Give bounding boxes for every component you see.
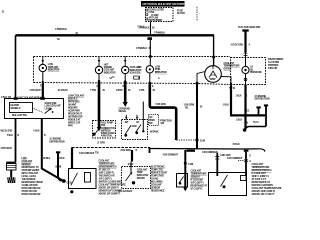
svg-text:TEMPERATURE: TEMPERATURE — [99, 163, 116, 166]
fuse symbols — [146, 9, 148, 11]
temp gauge U1 — [205, 66, 222, 83]
svg-text:COOLANT: COOLANT — [151, 184, 162, 187]
label 1 PNK/BLK 39 — [137, 26, 166, 35]
svg-text:COOLANT: COOLANT — [22, 160, 33, 163]
instrument cluster printed circuit label — [268, 58, 284, 70]
svg-text:LOW COOLANT: LOW COOLANT — [68, 94, 85, 97]
lamp C1 bottom wire — [42, 72, 44, 82]
connector bowtie — [244, 160, 248, 162]
lamp C1 LOW COOLANT — [39, 64, 46, 71]
wire fuse to bus — [150, 22, 152, 36]
svg-text:A/PB DT/AL: A/PB DT/AL — [101, 135, 113, 138]
svg-text:2 BLK: 2 BLK — [59, 158, 65, 160]
svg-text:MODULE AT: MODULE AT — [68, 118, 81, 121]
wire W/2.5L down left — [15, 119, 17, 163]
cluster left edge — [33, 57, 35, 83]
svg-text:A DK GRN: A DK GRN — [220, 154, 231, 157]
label 4 PNK/BLK — [55, 28, 67, 41]
svg-text:3.3 ENGINE: 3.3 ENGINE — [255, 96, 267, 98]
svg-text:LO: LO — [250, 67, 253, 69]
svg-text:PRR: PRR — [68, 125, 73, 127]
elbow to right stub — [246, 127, 267, 130]
svg-text:2 BRN: 2 BRN — [116, 90, 123, 92]
small box symbol — [134, 76, 140, 79]
lamp C2 HOT COOLANT — [95, 66, 102, 73]
coolant temp switch text block — [252, 163, 282, 196]
svg-text:28 BLK: 28 BLK — [43, 158, 51, 160]
svg-text:THE SENSOR: THE SENSOR — [22, 179, 36, 181]
svg-text:PROOFOR AT: PROOFOR AT — [68, 112, 83, 115]
svg-text:COOLANT: COOLANT — [191, 170, 202, 173]
driver arrow — [126, 174, 131, 182]
svg-text:ENGINE: ENGINE — [104, 67, 113, 69]
svg-text:INCLUDING: INCLUDING — [151, 182, 163, 184]
wire labels under cluster — [1, 89, 156, 99]
module pin list text — [68, 94, 85, 127]
svg-text:TEMPERATURE: TEMPERATURE — [224, 65, 241, 68]
labels on ground bus — [236, 120, 259, 125]
wire gauge right down — [230, 84, 232, 114]
svg-text:PROV IDES: PROV IDES — [68, 101, 80, 103]
svg-text:MC: MC — [138, 67, 142, 69]
gauge label — [224, 62, 241, 71]
lamp C2 HOT COOLANT arrow — [98, 56, 100, 66]
svg-text:ROW GAS BELOW: ROW GAS BELOW — [22, 193, 42, 196]
svg-text:T12 A: T12 A — [253, 121, 259, 124]
wire bus to indicator driver — [131, 150, 133, 162]
connector symbol — [244, 78, 247, 81]
electronic temp control text block — [151, 167, 167, 193]
svg-text:COOLANT: COOLANT — [99, 160, 110, 163]
svg-text:GAUGE: GAUGE — [224, 67, 232, 70]
svg-text:COOLANT: COOLANT — [104, 69, 115, 72]
wire bus to switch B pin2 — [244, 150, 249, 152]
park/neutral dashed box — [122, 120, 148, 140]
svg-text:ART LINE: ART LINE — [149, 16, 159, 19]
svg-text:IF COOLANT: IF COOLANT — [191, 179, 205, 182]
lamp C2 bottom wire — [98, 74, 100, 81]
svg-text:ABOVE 10F COMP FT: ABOVE 10F COMP FT — [99, 193, 121, 196]
svg-text:TEMP: TEMP — [137, 172, 143, 174]
svg-text:3.3 ENGINE: 3.3 ENGINE — [50, 139, 62, 141]
svg-text:RESISTANCE AT: RESISTANCE AT — [191, 185, 208, 188]
pin letters on cluster edge — [40, 77, 236, 90]
wire C2 to fuel pump box — [98, 81, 101, 128]
low coolant sensor text block — [22, 158, 44, 196]
sensor A arrow bottom — [183, 188, 187, 192]
label 3.3 engine distribution — [50, 139, 65, 144]
svg-text:4 DK GRN/WHT: 4 DK GRN/WHT — [227, 157, 243, 160]
connector C100 — [147, 37, 152, 40]
svg-text:A/C: A/C — [149, 116, 153, 119]
svg-text:SLEEP (2)M: SLEEP (2)M — [45, 103, 57, 105]
connector stub 1 — [256, 106, 260, 108]
svg-text:HOT: HOT — [104, 64, 109, 66]
fuel pump prime dashed box — [93, 121, 116, 139]
lamp bottom wire — [245, 74, 247, 85]
svg-text:W/O GAUGES: W/O GAUGES — [118, 190, 133, 193]
svg-text:5 BLK: 5 BLK — [34, 131, 40, 133]
label 517 DK GRN — [231, 43, 251, 46]
label 1 BLK — [223, 95, 270, 113]
ground splice G105 — [62, 179, 66, 183]
svg-text:1 BLK: 1 BLK — [236, 96, 242, 98]
svg-text:ABOVE 10F C OR FT: ABOVE 10F C OR FT — [252, 193, 275, 196]
low coolant module box — [5, 99, 64, 119]
svg-text:10F C (50F F): 10F C (50F F) — [191, 183, 204, 185]
svg-text:INDICATOR: INDICATOR — [48, 69, 60, 72]
svg-text:1 BLK: 1 BLK — [236, 120, 242, 122]
svg-text:MODULE: MODULE — [68, 98, 78, 100]
lamp C1 LOW COOLANT arrow — [42, 56, 44, 64]
ground bus horizontal — [230, 114, 266, 116]
coolant temp sensor text block — [191, 170, 208, 191]
svg-text:S139: S139 — [200, 141, 206, 143]
svg-text:W/2.5L ENG: W/2.5L ENG — [1, 131, 13, 133]
svg-text:100 HO: 100 HO — [151, 179, 159, 181]
svg-text:YEL: YEL — [185, 107, 190, 109]
svg-text:5 BLK: 5 BLK — [7, 135, 13, 137]
svg-text:INDICATOR: INDICATOR — [155, 71, 167, 74]
pin ticks cluster bottom — [43, 80, 246, 86]
svg-text:CUTLASS CIERA 3300: CUTLASS CIERA 3300 — [238, 26, 261, 29]
svg-text:TEMP STATE: TEMP STATE — [151, 175, 165, 178]
svg-text:SENSOR: SENSOR — [191, 177, 200, 179]
svg-text:5 DK GRN: 5 DK GRN — [156, 104, 166, 106]
svg-text:TEMP CTRL: TEMP CTRL — [151, 170, 164, 172]
svg-text:CIRCUIT: CIRCUIT — [268, 67, 278, 70]
wire C4 elbow to S139 — [150, 82, 176, 140]
wire gauge left to S139 — [196, 84, 198, 140]
svg-text:RESISTANCE TO: RESISTANCE TO — [22, 166, 39, 169]
svg-text:FUEL: FUEL — [155, 69, 161, 71]
svg-text:COOLANT: COOLANT — [48, 66, 59, 69]
labels — [43, 158, 65, 168]
wire oil lamp down to splice — [244, 85, 246, 129]
svg-text:HEATED: HEATED — [11, 104, 20, 107]
connector bus dashed left — [72, 147, 150, 149]
connector cap — [242, 29, 248, 31]
svg-text:TEMP: TEMP — [210, 79, 216, 81]
lamp C3 COOLANT FAN — [122, 66, 129, 73]
svg-text:PRES: PRES — [149, 120, 155, 122]
wire bus to temp switch — [71, 147, 73, 168]
svg-text:1 DK GRN/: 1 DK GRN/ — [184, 105, 195, 107]
switch M/T — [125, 126, 131, 135]
svg-text:4 PNK/BLK: 4 PNK/BLK — [55, 28, 67, 31]
svg-text:C139: C139 — [188, 164, 194, 166]
A/C function box — [149, 115, 159, 126]
svg-text:RESISTANCE: RESISTANCE — [151, 190, 165, 193]
fuse block label — [177, 9, 185, 15]
svg-text:LOW COOLANT: LOW COOLANT — [45, 105, 62, 108]
svg-text:0F C (32F F): 0F C (32F F) — [191, 189, 203, 191]
wire into box right — [142, 102, 144, 132]
svg-text:GROUND VARIES: GROUND VARIES — [22, 169, 40, 172]
svg-text:4 DK GRN WHT: 4 DK GRN WHT — [79, 152, 95, 155]
wire C1 to module — [42, 84, 44, 100]
svg-text:TEMPERATURE: TEMPERATURE — [191, 173, 208, 176]
stub on bus — [149, 147, 151, 153]
svg-text:1 PPL: 1 PPL — [139, 90, 145, 92]
lamp LO OIL wire top — [245, 64, 247, 67]
cluster bottom edge — [34, 83, 231, 85]
svg-text:5 PPL/WHT: 5 PPL/WHT — [30, 90, 42, 92]
svg-text:4 PPL/WHT: 4 PPL/WHT — [1, 147, 13, 150]
svg-text:LOW COOLANT MODULE: LOW COOLANT MODULE — [17, 97, 43, 100]
svg-text:THE SWITCH AT: THE SWITCH AT — [99, 175, 116, 178]
lamp C3 bottom wire — [124, 74, 126, 82]
svg-text:4 DK GRN/WHT: 4 DK GRN/WHT — [163, 154, 179, 157]
svg-text:COOLANT: COOLANT — [137, 168, 148, 171]
svg-text:WITH COOLANT: WITH COOLANT — [22, 172, 39, 175]
connector marks D/E — [244, 53, 248, 55]
svg-text:7 TAN: 7 TAN — [90, 89, 96, 92]
svg-text:2 OHM, OR FOR: 2 OHM, OR FOR — [22, 185, 38, 187]
svg-text:10 AMP: 10 AMP — [151, 14, 159, 17]
lamp C4 bottom wire — [149, 73, 151, 83]
lamp C4 LOW FUEL wire — [149, 58, 151, 66]
svg-text:AT 100C AT: AT 100C AT — [99, 169, 111, 172]
svg-text:MODURE: MODURE — [68, 107, 78, 109]
svg-text:4 GRN: 4 GRN — [130, 125, 137, 128]
squiggle symbol — [110, 77, 115, 79]
svg-text:8 DK GRN: 8 DK GRN — [121, 150, 131, 152]
svg-text:SPDW AUDIO: SPDW AUDIO — [101, 132, 115, 135]
connector band — [187, 150, 196, 152]
temp sensor text block — [99, 160, 127, 196]
wire bus corner down to gauge — [213, 35, 215, 66]
svg-text:CRANKING: CRANKING — [119, 107, 131, 110]
main bus wire 4 PNK/BLK — [16, 34, 215, 36]
wire 5 BLK down — [42, 119, 63, 181]
svg-text:RESISTANCE ABOVE: RESISTANCE ABOVE — [22, 181, 44, 184]
svg-text:I TAN B: I TAN B — [137, 26, 145, 29]
svg-text:INDICATOR: INDICATOR — [104, 71, 116, 74]
svg-text:ROW AND BELOW: ROW AND BELOW — [22, 187, 42, 190]
svg-text:W/TANK: W/TANK — [150, 131, 159, 134]
svg-text:100F C (238F F): 100F C (238F F) — [99, 173, 115, 175]
module switch arrow — [45, 109, 51, 114]
svg-text:DISTRIBUTION: DISTRIBUTION — [50, 141, 65, 143]
coolant level sensor — [6, 162, 16, 164]
svg-text:SWITCH CLOSES WITH: SWITCH CLOSES WITH — [99, 182, 123, 184]
splice S100 — [149, 55, 152, 58]
cranking signal arrow — [124, 81, 127, 103]
lamp C3 COOLANT FAN arrow — [124, 56, 126, 66]
connector stub 2 — [264, 104, 268, 106]
indicator driver dashed box — [122, 167, 151, 189]
svg-text:FUNCTION: FUNCTION — [161, 120, 172, 122]
lamp C4 LOW FUEL — [146, 66, 153, 73]
svg-text:LEVEL. LEVEL: LEVEL. LEVEL — [22, 176, 37, 178]
gauge right terminal wire — [221, 77, 231, 85]
svg-text:LT GRN: LT GRN — [97, 142, 105, 144]
power bar HOT IN RUN — [141, 1, 185, 7]
svg-text:ACER PWR: ACER PWR — [68, 109, 80, 112]
svg-text:DRIVER: DRIVER — [137, 178, 145, 180]
wire 517 DK GRN — [244, 32, 246, 53]
splice S139 — [195, 138, 198, 141]
svg-text:DISTRIBUTOR: DISTRIBUTOR — [68, 116, 83, 118]
svg-text:10F C (50F F): 10F C (50F F) — [99, 179, 112, 181]
gauge left terminal wire — [197, 72, 205, 84]
stubs into box — [126, 115, 137, 120]
wire bus to sensor A — [184, 150, 186, 190]
svg-text:COOLANT: COOLANT — [224, 62, 235, 65]
svg-text:DISTRIBUTION: DISTRIBUTION — [255, 99, 270, 101]
svg-text:1 PNK/BLK: 1 PNK/BLK — [136, 48, 148, 50]
fuse block dashed box — [146, 8, 174, 22]
svg-text:INDICATOR: INDICATOR — [130, 69, 142, 72]
svg-text:MODULE CONT: MODULE CONT — [151, 173, 167, 175]
svg-text:SEE LAST PNL: SEE LAST PNL — [12, 114, 28, 117]
splice at gauge left — [195, 82, 198, 85]
svg-text:ON AMT: ON AMT — [68, 103, 77, 106]
coolant temp switch box B — [209, 173, 247, 196]
label 1 PNK/BLK 39 — [136, 48, 152, 50]
wire corner to module — [15, 35, 17, 99]
ground stub wire — [56, 151, 60, 153]
svg-text:INDICATOR: INDICATOR — [137, 174, 149, 177]
svg-text:1 DK GRN/WHT: 1 DK GRN/WHT — [202, 152, 218, 154]
svg-text:SENSOR: SENSOR — [22, 164, 31, 166]
cranking signal label — [119, 107, 131, 113]
dashed link to splice S139 — [176, 139, 196, 141]
labels under bus middle — [79, 144, 243, 160]
svg-text:(GAUGES): (GAUGES) — [130, 72, 141, 75]
switch in fuel pump box — [95, 127, 101, 135]
svg-text:18 TAN 30: 18 TAN 30 — [58, 89, 69, 92]
svg-text:ABOVE 10F (238F F): ABOVE 10F (238F F) — [99, 187, 119, 190]
wire bus to splice S — [149, 40, 151, 56]
svg-text:STATE OR FOR: STATE OR FOR — [22, 190, 38, 193]
lamp LO OIL — [242, 66, 249, 73]
connector bus right — [150, 149, 265, 152]
module terminals — [14, 97, 18, 100]
svg-text:HOT IN RUN, BULB TEST OR START: HOT IN RUN, BULB TEST OR START — [143, 2, 185, 6]
svg-text:SENSOR/SWITCH: SENSOR/SWITCH — [99, 167, 117, 169]
svg-text:PRESSURE: PRESSURE — [250, 72, 262, 74]
sensor A box — [177, 174, 188, 188]
switch A/T — [136, 125, 142, 133]
instrument cluster dashed top edge — [34, 56, 231, 58]
svg-text:ELECTRONIC: ELECTRONIC — [151, 167, 165, 169]
svg-text:WRICE 2 OF: WRICE 2 OF — [68, 122, 81, 124]
svg-text:WSHIELD: WSHIELD — [11, 108, 21, 110]
oil lamp dashed box — [231, 58, 266, 85]
module inner box — [10, 103, 33, 113]
splice dot S — [243, 128, 247, 132]
svg-text:SIGNAL: SIGNAL — [119, 110, 128, 113]
engine coolant temp switch box — [69, 169, 97, 189]
svg-text:SENSOR: SENSOR — [151, 188, 160, 190]
svg-text:1 BLK: 1 BLK — [223, 104, 229, 106]
splice dot on cluster line — [212, 56, 215, 59]
label 1 DK GRN/YEL — [184, 105, 203, 110]
svg-text:BLOCK: BLOCK — [177, 12, 185, 15]
svg-text:15 BLK: 15 BLK — [233, 144, 241, 146]
svg-text:B 208: B 208 — [56, 167, 62, 169]
svg-text:517 DK GRN: 517 DK GRN — [231, 44, 244, 46]
wire bus to switch B pin1 — [216, 153, 218, 177]
svg-text:COOLANT TEMPERATURE: COOLANT TEMPERATURE — [99, 184, 127, 187]
dashed boundary line — [196, 7, 198, 21]
